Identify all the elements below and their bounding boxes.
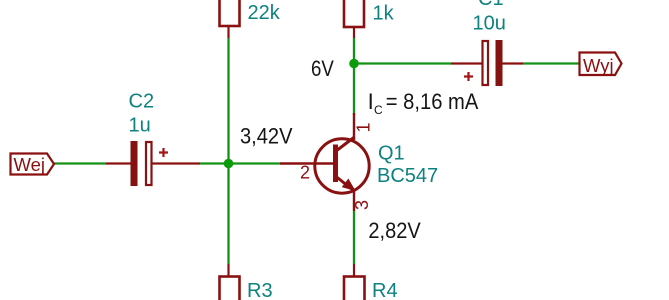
svg-text:Wej: Wej bbox=[14, 154, 46, 175]
wire C2 to node bbox=[200, 162, 229, 164]
svg-text:BC547: BC547 bbox=[377, 165, 438, 187]
port Wej bbox=[11, 154, 55, 176]
resistor R3 bbox=[220, 264, 240, 300]
wire right rail collector upper bbox=[353, 38, 355, 115]
capacitor C1 bbox=[451, 40, 523, 86]
svg-text:C2: C2 bbox=[129, 91, 155, 113]
svg-text:3,42V: 3,42V bbox=[240, 124, 293, 149]
svg-text:I: I bbox=[368, 89, 374, 114]
svg-text:R3: R3 bbox=[247, 280, 273, 300]
svg-text:Q1: Q1 bbox=[378, 143, 405, 165]
transistor Q1 bbox=[280, 113, 369, 211]
svg-text:R4: R4 bbox=[372, 280, 398, 300]
capacitor C2 bbox=[106, 141, 200, 186]
resistor 1k bbox=[344, 0, 364, 38]
junction node 6V collector bbox=[349, 59, 359, 69]
resistor 22k bbox=[220, 0, 240, 38]
svg-text:2: 2 bbox=[300, 163, 310, 183]
svg-text:22k: 22k bbox=[248, 2, 281, 24]
resistor R4 bbox=[344, 264, 365, 300]
svg-text:= 8,16 mA: = 8,16 mA bbox=[386, 89, 479, 114]
wire emitter lower bbox=[353, 211, 355, 264]
wire node to C1 bbox=[354, 62, 451, 64]
svg-text:10u: 10u bbox=[473, 13, 506, 35]
svg-text:Wyj: Wyj bbox=[583, 55, 614, 76]
wire left rail vertical bbox=[227, 38, 229, 264]
svg-text:3: 3 bbox=[352, 200, 372, 210]
wire C1 to Wyj bbox=[523, 62, 579, 64]
svg-text:6V: 6V bbox=[311, 56, 334, 81]
svg-text:C1: C1 bbox=[478, 0, 504, 10]
svg-text:1u: 1u bbox=[129, 115, 151, 137]
svg-text:C: C bbox=[374, 103, 383, 117]
wire Wej to C2 bbox=[54, 162, 106, 164]
junction node base divider bbox=[224, 159, 234, 169]
wire base horizontal bbox=[229, 162, 281, 164]
svg-text:2,82V: 2,82V bbox=[368, 218, 421, 243]
port Wyj bbox=[580, 53, 622, 77]
svg-text:1: 1 bbox=[354, 122, 374, 132]
svg-text:1k: 1k bbox=[373, 3, 395, 25]
